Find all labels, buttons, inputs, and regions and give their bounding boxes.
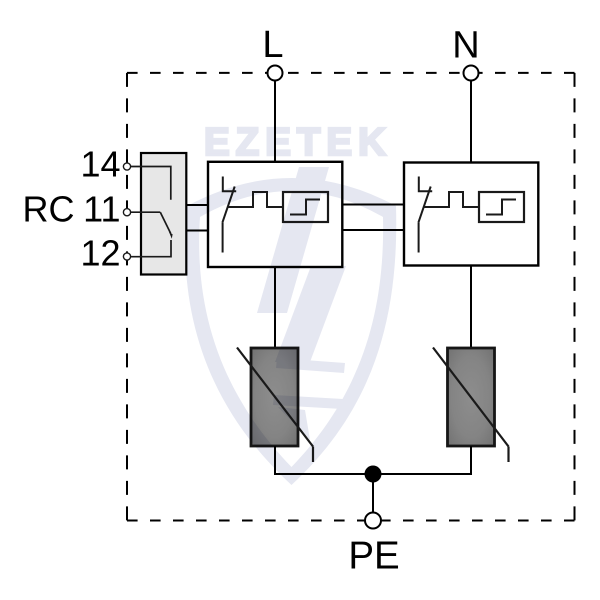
varistor RU2 [433,348,509,463]
surge pulse box 1 [283,192,328,222]
svg-text:PE: PE [348,535,399,578]
trigger waveform symbol 2 [424,192,479,207]
trigger waveform symbol 1 [228,192,283,207]
label 14 [80,144,120,185]
changeover contact arm RC [160,212,172,239]
wire module1 to module2 (upper) [342,204,404,206]
svg-text:RC: RC [23,188,75,229]
terminal L [268,66,283,81]
watermark shield band [185,178,396,485]
wire terminal 11 to common pivot [131,211,161,213]
thermal disconnect switch 2 [418,177,432,253]
wire RC block to SPD module 1 (upper) [186,204,208,206]
enclosure dashed border [127,73,575,521]
RC signalling contact block [141,153,186,275]
label PE [348,535,399,578]
svg-text:11: 11 [83,189,120,230]
wire module1 to module2 (lower) [342,229,404,231]
wire L vertical [274,81,276,162]
wire varistor 2 to PE junction [373,446,471,474]
wire junction to terminal PE [372,474,374,513]
terminal N [464,66,479,81]
svg-text:N: N [452,25,479,67]
svg-text:EZETEK: EZETEK [204,121,392,164]
wire RC block to SPD module 1 (lower) [186,230,208,232]
svg-text:L: L [262,24,283,66]
label RC [23,188,75,229]
wire N vertical [470,81,472,163]
terminal 11 [123,209,130,216]
label N [452,25,479,67]
junction dot PE [365,466,382,483]
wire module 1 to varistor 1 [274,267,276,348]
svg-text:12: 12 [80,233,120,274]
thermal disconnect switch 1 [222,177,236,253]
terminal PE [365,513,381,529]
terminal 12 [123,253,130,260]
watermark lightning bolt [257,167,329,313]
surge pulse box 2 [479,192,524,222]
watermark EZETEK logo [185,121,396,485]
wire terminal 12 to NC contact [131,240,172,257]
label L [262,24,283,66]
varistor RU1 [237,348,313,463]
wire terminal 14 to NO contact [131,167,171,200]
wire varistor 1 to PE junction [275,446,373,474]
label 12 [80,233,120,274]
label 11 [83,189,120,230]
terminal 14 [123,163,130,170]
wire module 2 to varistor 2 [470,266,472,349]
svg-text:14: 14 [80,144,120,185]
SPD module 2 box [404,163,538,266]
SPD module 1 box [208,162,342,267]
